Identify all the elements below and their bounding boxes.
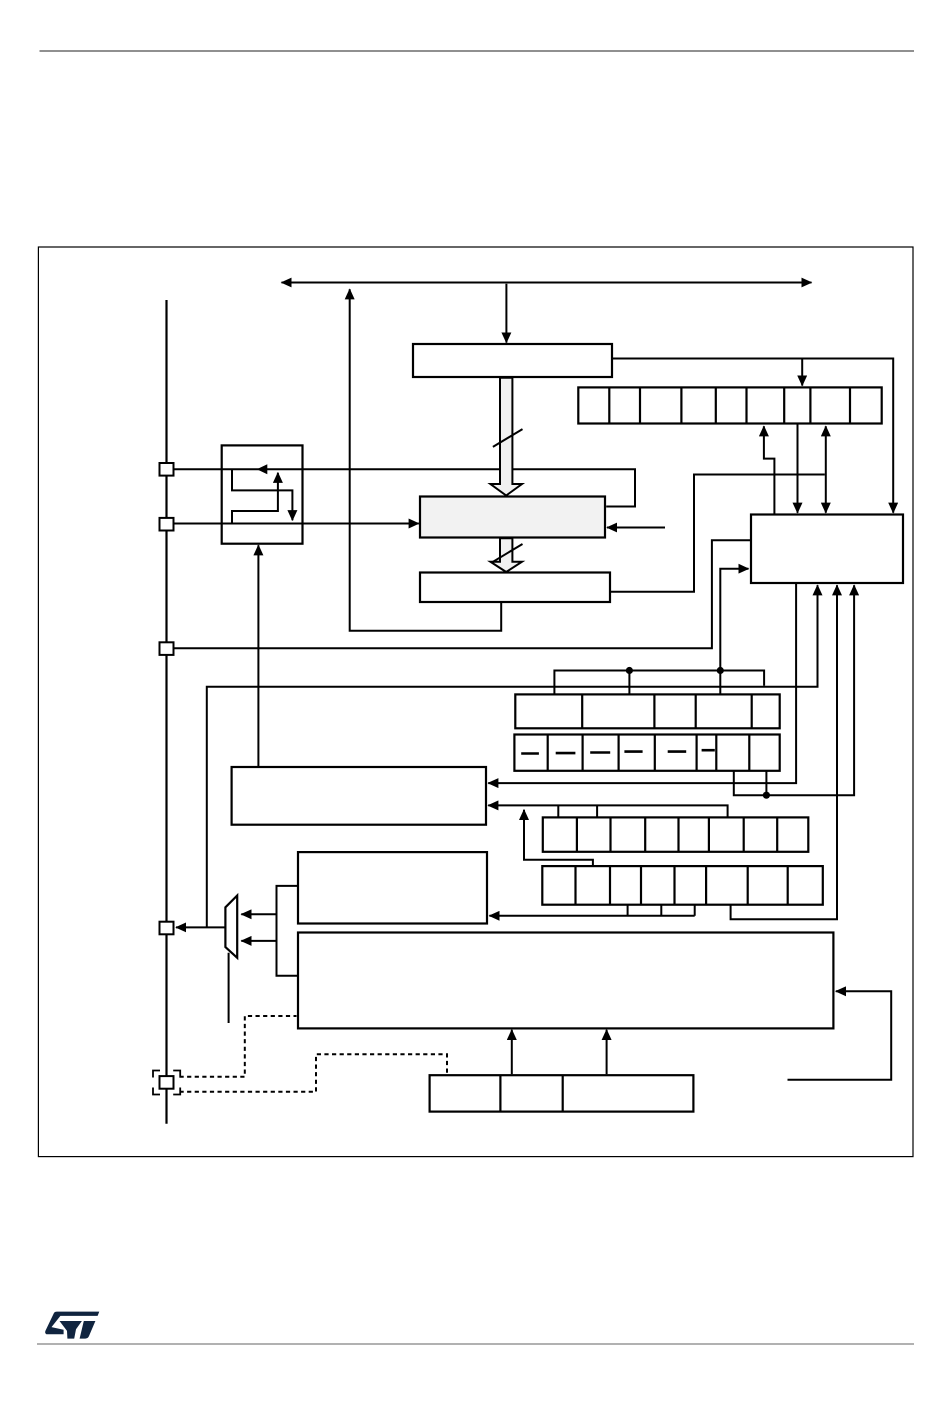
bus width slash (493, 429, 523, 447)
box shift register (420, 497, 605, 538)
wire mode select to control 1 (511, 1030, 513, 1074)
register baud rate (543, 817, 809, 851)
register SPICSR (578, 387, 881, 423)
wire divider bit to master control (731, 585, 837, 919)
mux symbol (225, 896, 237, 958)
wire divider feedback arrow (524, 810, 593, 866)
wire buffer crossover out (232, 469, 292, 520)
arrowhead on MISO wire (257, 464, 268, 474)
pin data out (160, 922, 174, 935)
box master control (751, 515, 903, 584)
bus width slash (493, 544, 523, 562)
pin bus line (165, 300, 167, 1124)
footer rule (37, 1343, 914, 1345)
wire reserved bits to master control (734, 585, 854, 795)
wire pin node to master control (207, 585, 818, 927)
wire mux input upper (241, 913, 276, 915)
pin MISO (160, 463, 174, 476)
wire divider stub 3 (694, 905, 696, 916)
wire into shift register right (607, 527, 665, 529)
box state control (232, 767, 486, 825)
junction bit (763, 792, 770, 799)
wire rate bit stub 2 (596, 805, 598, 817)
wire MSTR bit stub (719, 671, 721, 694)
wire SPE bit stub (628, 671, 630, 694)
wire internal bus (282, 282, 812, 284)
wire write buffer to master control (610, 475, 825, 592)
reserved bit dashes (521, 750, 715, 753)
register divider (542, 866, 823, 905)
wire mux input lower (241, 940, 276, 942)
wire mux select stub (228, 953, 230, 1023)
box read buffer (413, 344, 612, 377)
wire master control to SPICSR flag (764, 426, 775, 514)
wire mux to output pin (176, 926, 225, 928)
wire state control to pin buffer (257, 545, 259, 767)
pin SCK (160, 642, 174, 655)
wire bus to read buffer (505, 284, 507, 343)
box pin buffer (222, 445, 303, 543)
SS pin corner brackets (153, 1071, 180, 1095)
wire divider stub 2 (660, 905, 662, 916)
bus arrow read buffer to shift register (490, 378, 522, 496)
wire SPICSR to master control (797, 424, 799, 513)
register reserved (514, 735, 779, 771)
box control logic (298, 933, 833, 1029)
wire SPICSR-master bidirectional (825, 426, 827, 513)
wire rate bit stub 1 (557, 805, 559, 817)
header rule (40, 50, 915, 52)
pin SS (160, 1076, 174, 1089)
wire MSTR bit to master control (720, 569, 748, 671)
wire MISO (174, 469, 636, 506)
wire write buffer to internal bus (350, 289, 502, 631)
wire SCK to master control (173, 540, 750, 648)
junction SPE (626, 667, 633, 674)
wire divider bits to clock box (489, 915, 694, 917)
wire control logic feed (788, 991, 892, 1079)
wire read buffer to master control (612, 359, 893, 513)
wire buffer crossover in (232, 473, 278, 524)
diagram frame (38, 247, 913, 1157)
register SPICR (515, 694, 779, 728)
wire mode select to control 2 (606, 1030, 608, 1074)
pin MOSI (160, 518, 174, 531)
ST logo (45, 1312, 99, 1339)
wire master control to state control upper (488, 583, 796, 783)
wire MOSI (174, 523, 419, 525)
box mode select (430, 1075, 694, 1111)
wire control register lid (554, 671, 764, 694)
wire rate bits to state control (488, 805, 727, 817)
wire branch into status register bit (801, 359, 803, 386)
wire SS dashed lower (180, 1054, 448, 1092)
box write buffer (420, 573, 610, 603)
bus arrow shift register to write buffer (490, 538, 522, 572)
wire mux bracket (277, 886, 299, 976)
box clock generator (298, 852, 487, 923)
wire SS dashed upper (180, 1016, 297, 1077)
wire divider stub 1 (627, 905, 629, 916)
junction MSTR (717, 667, 724, 674)
wire bit stub (765, 771, 767, 795)
